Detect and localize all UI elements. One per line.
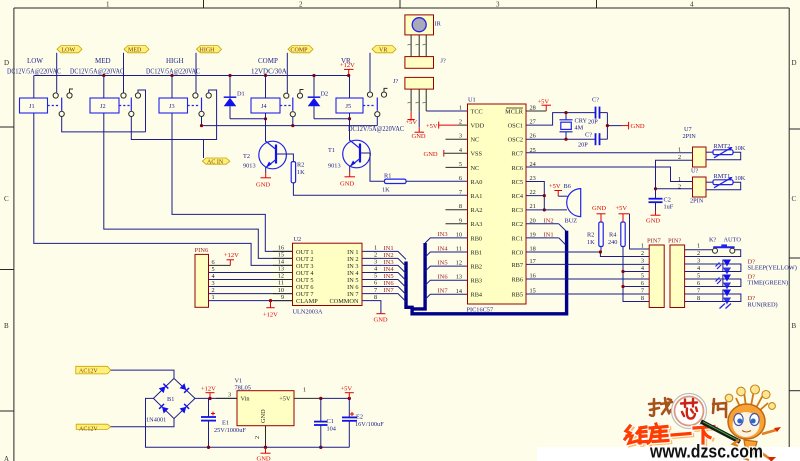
power +5V R4 — [616, 205, 630, 222]
svg-text:240: 240 — [608, 239, 617, 246]
svg-text:27: 27 — [530, 119, 536, 126]
svg-text:14: 14 — [278, 259, 285, 266]
svg-text:T2: T2 — [243, 153, 250, 160]
svg-text:DC12V/5A@220VAC: DC12V/5A@220VAC — [348, 125, 404, 133]
pin stubs U1 left — [446, 139, 468, 224]
svg-text:1K: 1K — [297, 169, 305, 176]
wire J2 NO contact hook from J1 common — [138, 90, 146, 132]
svg-text:RB6: RB6 — [511, 276, 523, 283]
capacitor E1 25V/1000uF — [201, 398, 246, 449]
svg-text:PIN7: PIN7 — [647, 238, 661, 245]
wire IR signal to U1 pin1 — [426, 110, 467, 112]
svg-text:VR: VR — [379, 48, 387, 54]
resistor R2 base T2 — [291, 162, 305, 183]
switch K7 AUTO — [685, 237, 742, 257]
power flag AC12V upper — [76, 366, 111, 374]
junction dots common rail — [200, 124, 295, 127]
wire OSC1 to C7a — [526, 113, 595, 126]
svg-text:10K: 10K — [735, 175, 746, 182]
svg-text:1: 1 — [374, 245, 377, 252]
wire U1 RC3 pin21 to buzzer — [526, 209, 567, 211]
svg-text:15: 15 — [278, 252, 284, 259]
svg-text:T1: T1 — [328, 147, 335, 154]
label D sleep — [748, 259, 797, 272]
svg-text:GND: GND — [260, 409, 267, 423]
svg-text:21: 21 — [530, 203, 536, 210]
wire U2 IN1 tap — [362, 245, 406, 260]
svg-text:3: 3 — [212, 280, 215, 287]
svg-text:2: 2 — [641, 250, 644, 257]
connector PIN8 — [668, 238, 685, 308]
svg-text:NC: NC — [471, 137, 480, 144]
svg-text:2PIN: 2PIN — [683, 133, 697, 140]
wire AC12V to bridge bottom — [111, 419, 174, 427]
svg-text:1: 1 — [678, 147, 681, 154]
wire +12V coil rail — [34, 75, 350, 77]
wire J5 coil bottom to D2 — [314, 113, 350, 119]
svg-text:9: 9 — [281, 294, 284, 301]
wire J3 common to common rail — [201, 117, 203, 126]
connector J7 upper — [405, 57, 446, 69]
svg-text:9013: 9013 — [243, 163, 256, 170]
svg-text:B: B — [792, 322, 797, 330]
svg-text:SLEEP(YELLOW): SLEEP(YELLOW) — [748, 265, 797, 272]
bus IN1-IN7 — [406, 231, 567, 314]
wire bridge minus to ground rail — [146, 398, 266, 447]
wire PIN6 pin5 to U2 OUT4 — [209, 272, 293, 274]
svg-text:5: 5 — [374, 273, 377, 280]
wire RB4 IN7 tap — [425, 288, 467, 300]
wire U1 RC6 to U7b pin1 — [526, 167, 693, 182]
wire R4 to PIN7 pins 4 6 8 — [621, 247, 649, 302]
ground C7 — [622, 122, 645, 130]
svg-text:DC12V/5A@220VAC: DC12V/5A@220VAC — [7, 68, 61, 76]
svg-text:12: 12 — [278, 273, 284, 280]
svg-text:E2: E2 — [356, 414, 363, 421]
svg-text:2: 2 — [299, 1, 303, 9]
svg-text:5: 5 — [459, 161, 462, 168]
LED D-sleep — [716, 260, 732, 275]
resistor R4 240 — [608, 222, 625, 247]
connector J7 lower — [393, 77, 434, 89]
svg-text:HIGH: HIGH — [166, 57, 184, 65]
svg-text:16V/100uF: 16V/100uF — [355, 421, 384, 428]
svg-text:1: 1 — [303, 387, 306, 394]
svg-text:11: 11 — [456, 246, 462, 253]
svg-text:GND: GND — [256, 182, 270, 189]
svg-text:2: 2 — [678, 184, 681, 191]
power flag VR — [372, 46, 396, 54]
wires J7 lower down — [411, 89, 426, 111]
ground U1 pin4 — [424, 150, 468, 158]
wire RB3 IN6 tap — [425, 274, 467, 286]
svg-text:DC12V/5A@220VAC: DC12V/5A@220VAC — [70, 68, 124, 76]
junction dots buzzer drive — [543, 194, 546, 197]
svg-text:RB1: RB1 — [471, 249, 483, 256]
svg-text:U2: U2 — [294, 236, 302, 243]
resistor RMT2 10K — [706, 143, 746, 160]
svg-text:2: 2 — [254, 436, 261, 439]
svg-text:RB3: RB3 — [471, 278, 483, 285]
svg-text:GND: GND — [631, 123, 645, 130]
svg-text:MED: MED — [128, 48, 142, 54]
ground U2 COMMON — [362, 301, 388, 324]
svg-text:+12V: +12V — [224, 252, 239, 259]
svg-text:OUT 6: OUT 6 — [296, 284, 314, 291]
svg-text:13: 13 — [278, 266, 284, 273]
svg-text:26: 26 — [530, 133, 536, 140]
wire U1 RC0 pin18 to PIN7 pin2 — [526, 252, 649, 257]
svg-text:2: 2 — [212, 287, 215, 294]
svg-text:U7: U7 — [684, 126, 692, 133]
wire RB2 IN5 tap — [425, 259, 467, 271]
svg-text:19: 19 — [530, 231, 536, 238]
svg-text:RA0: RA0 — [471, 179, 483, 186]
svg-text:RMT1: RMT1 — [714, 173, 731, 180]
pin numbers U1 left — [456, 105, 463, 295]
capacitor C7a 20P — [588, 97, 607, 126]
svg-text:16: 16 — [530, 273, 536, 280]
svg-text:LOW: LOW — [27, 57, 43, 65]
pin stubs U2 left — [273, 251, 293, 300]
net flag AC IN — [202, 158, 229, 165]
svg-text:RC6: RC6 — [511, 165, 523, 172]
svg-text:J2: J2 — [100, 103, 106, 110]
wire J5 common to rail — [376, 117, 378, 126]
diode D1 — [224, 76, 245, 119]
op-amp U2 ULN2003A — [293, 236, 363, 316]
svg-text:R1: R1 — [384, 173, 391, 180]
magnifier handle — [701, 422, 740, 442]
wire AC IN stem — [203, 140, 205, 159]
svg-text:K?: K? — [709, 237, 717, 244]
mascot ant — [725, 385, 781, 461]
svg-text:OUT 7: OUT 7 — [296, 291, 314, 298]
power flag AC12V lower — [76, 424, 111, 432]
svg-text:RC0: RC0 — [511, 249, 523, 256]
svg-text:1uF: 1uF — [664, 204, 674, 211]
svg-text:3: 3 — [697, 258, 700, 265]
svg-text:IN3: IN3 — [438, 231, 448, 238]
svg-text:CLAMP: CLAMP — [296, 298, 318, 305]
svg-text:+12V: +12V — [340, 62, 355, 69]
wire OSC2 to C7b — [526, 138, 595, 140]
svg-text:D: D — [4, 59, 9, 67]
svg-text:4M: 4M — [575, 125, 584, 132]
wire R1 to U1 RA0 — [406, 180, 468, 182]
svg-text:7: 7 — [697, 288, 700, 295]
svg-text:10: 10 — [278, 287, 284, 294]
svg-text:E1: E1 — [222, 420, 229, 427]
svg-text:TIME(GREEN): TIME(GREEN) — [748, 280, 789, 287]
svg-text:U?: U? — [691, 168, 699, 175]
wire U1 RC5 pin23 down — [526, 182, 544, 210]
svg-text:+5V: +5V — [279, 396, 291, 403]
svg-text:LOW: LOW — [62, 48, 76, 54]
wire PIN6 pin2 to U2 OUT7 — [209, 293, 293, 295]
svg-text:COMP: COMP — [291, 48, 309, 54]
wire LOW flag to J1 contact — [56, 53, 58, 93]
ground T1 — [340, 172, 355, 188]
svg-text:20P: 20P — [588, 119, 598, 126]
svg-text:OSC1: OSC1 — [508, 123, 523, 130]
power +5V U1 pin2 — [426, 122, 468, 130]
svg-text:1K: 1K — [587, 239, 595, 246]
wire J2 coil to U2 OUT2 — [104, 113, 293, 258]
svg-text:VDD: VDD — [471, 123, 485, 130]
svg-text:3: 3 — [374, 259, 377, 266]
junction dot J5 coil D2 — [348, 117, 351, 120]
svg-text:16: 16 — [278, 245, 284, 252]
pin numbers PIN8 — [697, 243, 701, 303]
resistor RMT1 10K — [706, 173, 746, 190]
ground R2 pullup — [592, 205, 606, 222]
svg-text:28: 28 — [530, 105, 536, 112]
svg-text:RA3: RA3 — [471, 221, 483, 228]
power flag MED — [124, 46, 149, 54]
connector U7 2PIN lower — [678, 176, 706, 205]
svg-text:7: 7 — [641, 288, 644, 295]
junction dots on rail — [102, 74, 350, 77]
svg-text:5: 5 — [641, 273, 644, 280]
svg-text:7: 7 — [459, 189, 462, 196]
svg-text:+12V: +12V — [201, 386, 216, 393]
wire U2 IN3 tap — [362, 259, 406, 274]
svg-text:RC5: RC5 — [511, 179, 523, 186]
svg-text:NC: NC — [471, 165, 480, 172]
pin numbers PIN6 — [212, 259, 216, 301]
svg-text:IN1: IN1 — [544, 231, 554, 238]
wire R2 to U1 RA1 — [293, 183, 467, 196]
svg-text:RA2: RA2 — [471, 207, 483, 214]
svg-text:OUT 3: OUT 3 — [296, 263, 314, 270]
wire HIGH flag to J3 contact — [195, 53, 197, 93]
svg-text:IN5: IN5 — [438, 259, 448, 266]
watermark logo dzsc — [537, 385, 800, 461]
svg-text:IN 2: IN 2 — [347, 256, 358, 263]
svg-text:A: A — [4, 455, 9, 461]
svg-text:RA1: RA1 — [471, 193, 483, 200]
capacitor C7b 20P — [578, 132, 607, 149]
svg-text:9: 9 — [459, 217, 462, 224]
svg-text:GND: GND — [646, 218, 660, 225]
svg-text:BUZ: BUZ — [565, 218, 578, 225]
svg-text:GND: GND — [592, 205, 606, 212]
magnifier with xin — [672, 394, 707, 429]
svg-text:B: B — [4, 322, 9, 330]
wire relay common rail — [202, 125, 378, 127]
svg-text:AC12V: AC12V — [79, 369, 98, 375]
svg-text:C1: C1 — [327, 418, 334, 425]
svg-text:OUT 4: OUT 4 — [296, 270, 314, 277]
svg-text:6: 6 — [374, 280, 377, 287]
wire U2 IN7 tap — [362, 287, 406, 302]
resistor R1 base T1 — [382, 173, 406, 194]
svg-text:CRY: CRY — [575, 118, 588, 125]
svg-text:22: 22 — [530, 189, 536, 196]
pin marks J7 wires — [408, 101, 426, 104]
relay J3 — [159, 76, 211, 117]
svg-text:GND: GND — [424, 151, 438, 158]
label D run — [748, 295, 778, 309]
wire J3 coil to U2 OUT1 — [172, 113, 293, 251]
wire PIN6 pin4 to U2 OUT5 — [209, 279, 293, 281]
op-amp U1 PIC16C57 — [467, 97, 527, 314]
wire ground rail right end — [266, 446, 350, 448]
svg-text:V1: V1 — [235, 378, 243, 385]
wire +5V to PIN7 pin1 — [630, 214, 650, 249]
pin numbers PIN7 — [641, 243, 645, 303]
svg-text:25V/1000uF: 25V/1000uF — [214, 427, 246, 434]
svg-text:7: 7 — [374, 287, 377, 294]
svg-text:3: 3 — [459, 133, 462, 140]
svg-text:IN5: IN5 — [384, 273, 394, 280]
svg-text:78L05: 78L05 — [235, 385, 251, 392]
svg-text:AC IN: AC IN — [207, 159, 224, 165]
bridge rectifier B1 — [146, 378, 195, 423]
wire C7 common to GND — [607, 113, 621, 140]
svg-text:8: 8 — [641, 295, 644, 302]
svg-text:+5V: +5V — [341, 386, 353, 393]
svg-text:5: 5 — [697, 273, 700, 280]
svg-text:RC4: RC4 — [511, 193, 523, 200]
svg-text:3: 3 — [496, 1, 500, 9]
svg-text:14: 14 — [456, 288, 463, 295]
wire J2 common down-right to AC IN line — [131, 117, 216, 140]
svg-text:10K: 10K — [735, 145, 746, 152]
power +5V symbol supply — [341, 386, 354, 399]
svg-text:RC1: RC1 — [511, 235, 523, 242]
wire RB1 IN4 tap — [425, 245, 467, 257]
svg-text:www.dzsc.com: www.dzsc.com — [649, 442, 763, 461]
wire PIN6 pin6 to +12V — [209, 264, 231, 266]
wire U1 RC2 IN2 tap — [526, 217, 567, 231]
svg-text:+5V: +5V — [406, 119, 418, 126]
wires IR to J7 — [411, 35, 426, 57]
connector PIN6 — [195, 247, 209, 307]
buzzer B6 — [565, 189, 581, 225]
svg-text:D1: D1 — [237, 91, 245, 98]
svg-text:18: 18 — [530, 246, 536, 253]
svg-text:10: 10 — [456, 231, 462, 238]
relay J1 — [20, 76, 74, 117]
svg-text:2: 2 — [459, 119, 462, 126]
svg-text:ULN2003A: ULN2003A — [293, 309, 324, 316]
svg-text:IN 5: IN 5 — [347, 277, 358, 284]
svg-text:D2: D2 — [321, 91, 329, 98]
svg-text:1: 1 — [212, 294, 215, 301]
power +12V symbol supply — [201, 386, 216, 401]
power flag HIGH — [197, 46, 222, 54]
ground C2 — [646, 211, 661, 225]
connector U7 2PIN upper — [678, 126, 706, 175]
wire U2 IN4 tap — [362, 266, 406, 281]
svg-text:C: C — [792, 195, 797, 203]
svg-text:OUT 5: OUT 5 — [296, 277, 314, 284]
resistor R2 1K — [587, 222, 603, 252]
svg-text:DC12V/5A@220VAC: DC12V/5A@220VAC — [146, 68, 200, 76]
transistor T2 — [243, 119, 286, 173]
svg-text:COMP: COMP — [258, 57, 278, 65]
junction dot C2 node — [654, 187, 657, 190]
wire J4 coil bottom to D1 — [230, 113, 266, 119]
wire COMP flag to J4 contact — [286, 53, 288, 93]
svg-text:15: 15 — [530, 288, 536, 295]
svg-text:11: 11 — [278, 280, 284, 287]
svg-text:D: D — [792, 59, 797, 67]
LED arrows — [720, 304, 732, 309]
svg-text:PIN?: PIN? — [668, 238, 681, 245]
wire T1 base — [361, 153, 385, 181]
svg-text:B1: B1 — [167, 396, 174, 403]
svg-text:8: 8 — [374, 294, 377, 301]
wire MED flag to J2 contact — [123, 53, 125, 93]
svg-text:1: 1 — [641, 243, 644, 250]
ground V1 — [257, 446, 271, 461]
svg-text:J3: J3 — [169, 103, 175, 110]
power +5V IR — [406, 111, 418, 126]
svg-text:1N4001: 1N4001 — [146, 416, 166, 423]
pin numbers U1 right — [530, 105, 537, 295]
svg-text:J4: J4 — [261, 103, 267, 110]
svg-text:C2: C2 — [664, 197, 671, 204]
svg-text:IN7: IN7 — [438, 288, 449, 295]
regulator V1 78L05 — [216, 378, 321, 448]
svg-text:1: 1 — [697, 243, 700, 250]
svg-text:104: 104 — [327, 426, 337, 433]
LED D-sleep loop — [685, 264, 741, 272]
svg-text:AC12V: AC12V — [79, 426, 98, 432]
svg-text:+5V: +5V — [538, 99, 550, 106]
svg-text:3: 3 — [228, 392, 231, 399]
svg-text:13: 13 — [456, 274, 462, 281]
svg-text:3: 3 — [641, 258, 644, 265]
relay J2 — [90, 76, 141, 117]
power +12V PIN6 — [224, 252, 239, 266]
pin numbers U2 left — [278, 245, 285, 301]
svg-text:J1: J1 — [29, 103, 35, 110]
svg-text:IN6: IN6 — [438, 274, 449, 281]
svg-text:6: 6 — [212, 259, 215, 266]
LED D-run loop — [685, 294, 741, 302]
LED D-time — [716, 275, 732, 290]
svg-text:MED: MED — [95, 57, 111, 65]
bus left riser — [411, 243, 425, 309]
wire J1 coil to U2 OUT3 — [34, 113, 293, 265]
capacitor E2 16V/100uF — [342, 398, 384, 447]
svg-text:12VDC/30A: 12VDC/30A — [251, 68, 287, 76]
svg-text:GND: GND — [257, 456, 271, 461]
svg-text:+12V: +12V — [263, 312, 278, 319]
svg-text:IN7: IN7 — [384, 287, 395, 294]
svg-text:OSC2: OSC2 — [508, 137, 523, 144]
svg-text:+5V: +5V — [426, 123, 438, 130]
svg-text:TCC: TCC — [471, 108, 483, 115]
svg-text:4: 4 — [690, 1, 694, 9]
svg-text:RB2: RB2 — [471, 264, 483, 271]
junction dot J4 coil D1 — [264, 117, 267, 120]
relay J5 — [336, 76, 388, 117]
IR receiver module — [405, 15, 442, 35]
svg-text:RUN(RED): RUN(RED) — [748, 302, 778, 309]
svg-text:IN4: IN4 — [438, 245, 449, 252]
wire U2 IN5 tap — [362, 273, 406, 288]
svg-text:R2: R2 — [297, 162, 304, 169]
wire +5V rail supply — [321, 397, 350, 399]
svg-text:1K: 1K — [382, 187, 390, 194]
svg-text:12: 12 — [456, 260, 462, 267]
wire AC12V to bridge top — [111, 370, 174, 378]
